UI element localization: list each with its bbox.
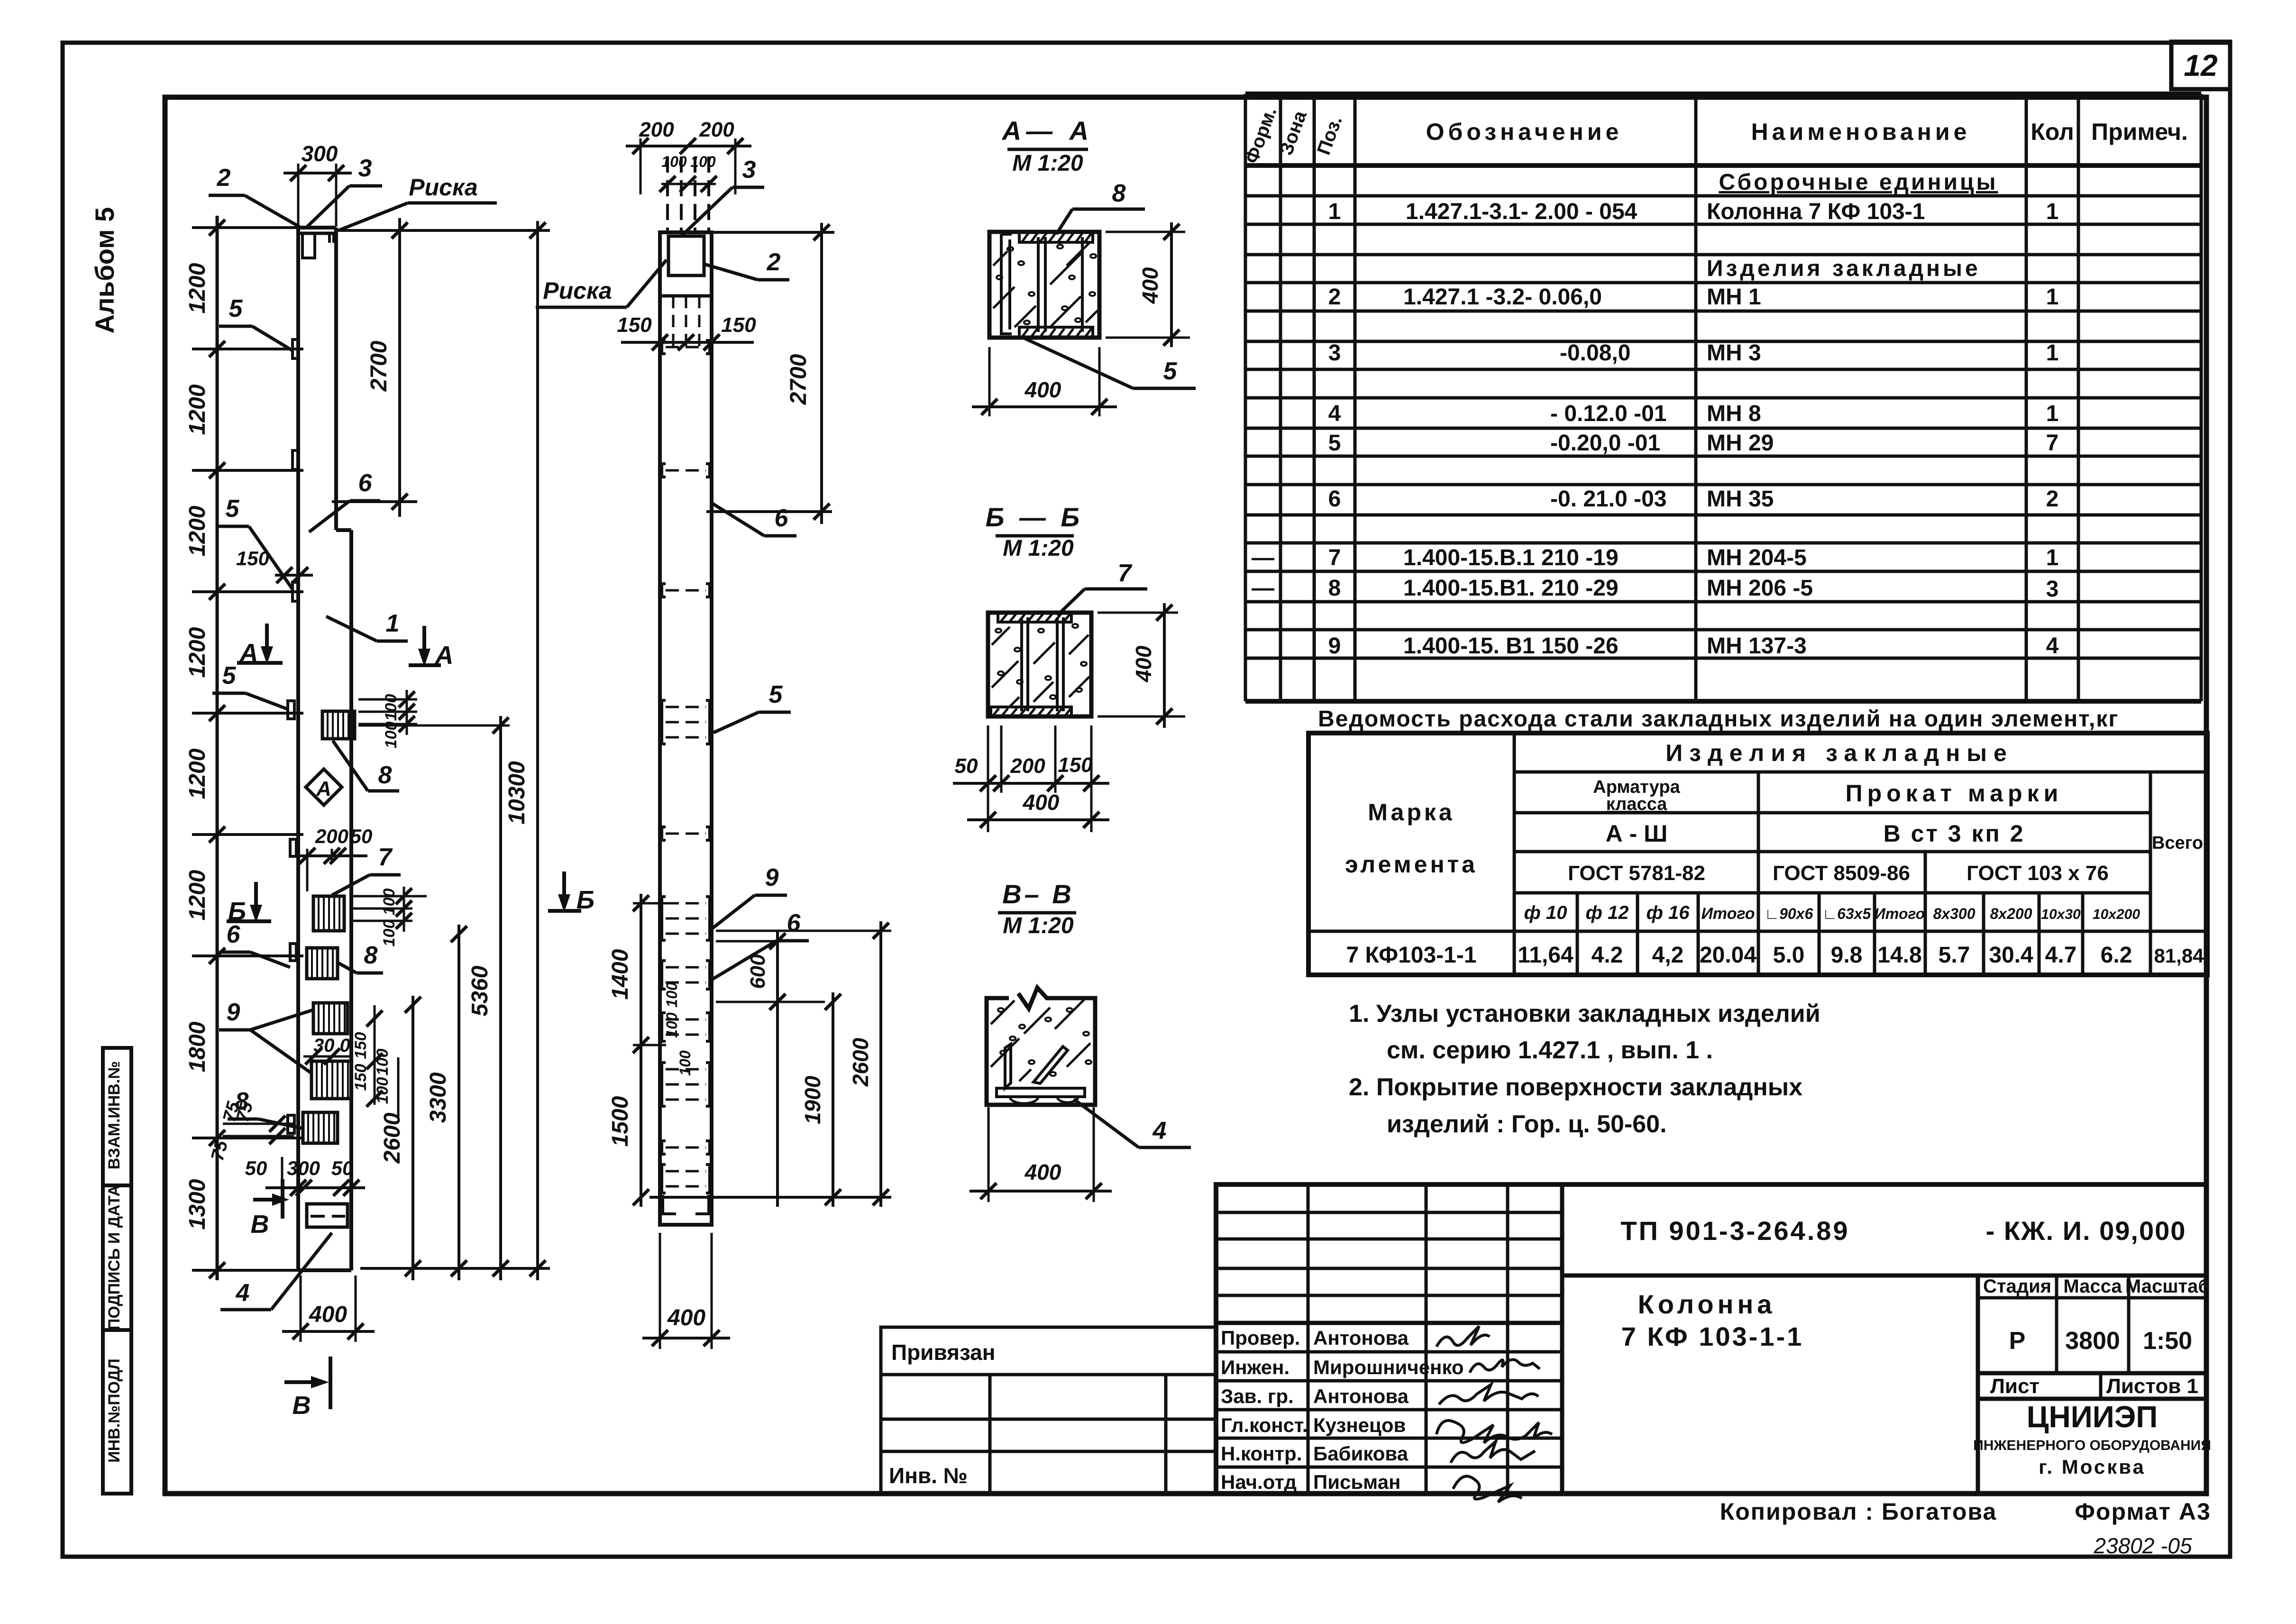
- steel table sub headers: [1524, 902, 2140, 923]
- svg-text:М 1:20: М 1:20: [1003, 536, 1074, 561]
- top plate 8 strip: [993, 232, 1098, 338]
- svg-text:50: 50: [245, 1157, 267, 1179]
- leader 6 to step: [309, 501, 350, 532]
- leader 7: [332, 875, 370, 895]
- svg-text:400: 400: [1025, 1160, 1061, 1184]
- svg-text:4: 4: [236, 1279, 250, 1307]
- svg-text:6: 6: [787, 909, 801, 937]
- svg-text:Примеч.: Примеч.: [2091, 119, 2188, 145]
- svg-text:200: 200: [1010, 754, 1045, 778]
- left channel (plate 5): [1001, 234, 1012, 334]
- leader 8b: [338, 963, 357, 973]
- svg-text:Листов 1: Листов 1: [2106, 1375, 2198, 1398]
- svg-text:8: 8: [1112, 180, 1126, 207]
- svg-text:100: 100: [374, 1049, 392, 1076]
- svg-text:ф 16: ф 16: [1647, 902, 1690, 923]
- leader 8 first: [333, 741, 368, 791]
- svg-text:9: 9: [227, 999, 240, 1026]
- svg-text:400: 400: [667, 1305, 705, 1330]
- svg-text:1.400-15. В1 150 -26: 1.400-15. В1 150 -26: [1403, 633, 1619, 659]
- svg-text:100: 100: [380, 889, 398, 916]
- dim 300 above cap: [297, 164, 300, 227]
- svg-text:1200: 1200: [185, 263, 210, 313]
- svg-text:А: А: [316, 777, 331, 800]
- svg-text:7: 7: [1328, 545, 1341, 570]
- handwritten signatures: [1436, 1326, 1552, 1502]
- svg-text:23802 -05: 23802 -05: [2093, 1533, 2192, 1558]
- svg-text:400: 400: [1023, 790, 1060, 815]
- svg-text:2: 2: [1328, 284, 1341, 310]
- svg-text:100: 100: [382, 694, 400, 721]
- top plate 7 strip: [998, 613, 1071, 622]
- svg-text:7 КФ103-1-1: 7 КФ103-1-1: [1346, 943, 1476, 968]
- svg-text:3800: 3800: [2065, 1327, 2120, 1355]
- svg-text:5: 5: [769, 681, 783, 708]
- svg-text:М 1:20: М 1:20: [1003, 913, 1074, 938]
- concrete hatch: [992, 627, 1010, 645]
- leader 7: [1057, 589, 1085, 615]
- svg-text:МН 3: МН 3: [1707, 340, 1761, 366]
- svg-text:Привязан: Привязан: [891, 1340, 996, 1365]
- section V mark left: [253, 1198, 278, 1202]
- svg-text:Н.контр.: Н.контр.: [1221, 1442, 1302, 1465]
- svg-text:1: 1: [1328, 199, 1341, 224]
- svg-text:Формат А3: Формат А3: [2075, 1498, 2211, 1525]
- svg-text:МН 29: МН 29: [1707, 431, 1774, 456]
- svg-text:14.8: 14.8: [1877, 943, 1921, 968]
- svg-text:30.4: 30.4: [1989, 943, 2033, 968]
- diamond mark A: [306, 769, 342, 805]
- svg-text:10х30: 10х30: [2041, 907, 2081, 922]
- right 400 dim: [1098, 612, 1178, 614]
- svg-text:-0.20,0 -01: -0.20,0 -01: [1550, 431, 1660, 456]
- svg-text:В ст 3 кп 2: В ст 3 кп 2: [1884, 820, 2025, 847]
- svg-text:1: 1: [2046, 340, 2059, 366]
- svg-text:см. серию 1.427.1 , вып. 1 .: см. серию 1.427.1 , вып. 1 .: [1387, 1037, 1713, 1064]
- svg-text:Колонна: Колонна: [1638, 1289, 1776, 1319]
- svg-text:М 1:20: М 1:20: [1012, 151, 1083, 176]
- leader 8c: [258, 1119, 303, 1129]
- svg-text:7: 7: [378, 844, 393, 871]
- svg-text:8х200: 8х200: [1990, 905, 2032, 922]
- svg-text:ПОДПИСЬ И ДАТА: ПОДПИСЬ И ДАТА: [105, 1185, 123, 1330]
- svg-text:Риска: Риска: [409, 174, 477, 201]
- svg-text:Лист: Лист: [1990, 1375, 2040, 1398]
- svg-text:Б — Б: Б — Б: [986, 502, 1083, 532]
- svg-text:Изделия закладные: Изделия закладные: [1707, 256, 1981, 281]
- steel consumption table grid: [1308, 733, 2207, 975]
- svg-text:Всего: Всего: [2152, 833, 2203, 853]
- svg-text:Антонова: Антонова: [1313, 1327, 1409, 1349]
- svg-text:- КЖ. И. 09,000: - КЖ. И. 09,000: [1986, 1216, 2186, 1246]
- steel table data row: [1346, 943, 2204, 968]
- svg-text:400: 400: [309, 1302, 347, 1327]
- stage mass scale fields: [1983, 1276, 2210, 1398]
- svg-text:2. Покрытие поверхности закл: 2. Покрытие поверхности закладных: [1349, 1073, 1802, 1101]
- plate 8b hatched: [290, 944, 296, 961]
- leader 6 lower: [710, 941, 777, 981]
- svg-text:Альбом 5: Альбом 5: [90, 207, 119, 334]
- svg-text:400: 400: [1025, 377, 1061, 402]
- bottom strip: [991, 707, 1071, 716]
- svg-text:5360: 5360: [467, 965, 493, 1016]
- bottom 400 dim: [300, 1275, 302, 1342]
- svg-text:5.7: 5.7: [1939, 943, 1970, 968]
- svg-text:Инв. №: Инв. №: [889, 1463, 968, 1488]
- svg-text:150: 150: [617, 313, 652, 337]
- svg-text:2: 2: [217, 164, 231, 192]
- leader 9: [711, 895, 755, 929]
- svg-text:4.2: 4.2: [1592, 943, 1623, 968]
- svg-text:3: 3: [742, 156, 756, 184]
- svg-text:50: 50: [331, 1157, 354, 1179]
- svg-text:100: 100: [661, 153, 687, 170]
- right-side long dims of column 1: [360, 1267, 550, 1270]
- svg-text:Антонова: Антонова: [1313, 1385, 1409, 1407]
- svg-text:ТП 901-3-264.89: ТП 901-3-264.89: [1620, 1216, 1849, 1246]
- leader 6 right: [713, 504, 764, 536]
- bottom plate strip: [997, 1088, 1085, 1097]
- svg-text:3: 3: [1328, 340, 1341, 366]
- svg-text:300: 300: [302, 141, 338, 166]
- svg-text:50: 50: [350, 825, 373, 847]
- svg-text:2: 2: [767, 248, 781, 276]
- svg-text:∟63х5: ∟63х5: [1822, 905, 1872, 922]
- bottom 400 dim: [988, 1107, 990, 1202]
- svg-text:1200: 1200: [185, 748, 210, 799]
- svg-text:Итого: Итого: [1701, 905, 1755, 923]
- svg-text:6: 6: [775, 505, 789, 532]
- svg-text:ф 12: ф 12: [1586, 902, 1629, 923]
- inner verticals: [1037, 237, 1040, 332]
- svg-text:100: 100: [690, 153, 716, 170]
- svg-text:8: 8: [364, 942, 378, 969]
- V channel plates: [1005, 1044, 1011, 1088]
- svg-text:1: 1: [2046, 284, 2059, 310]
- svg-text:МН 206 -5: МН 206 -5: [1707, 576, 1813, 601]
- svg-text:300: 300: [287, 1157, 320, 1179]
- plate 8c: [288, 1115, 294, 1133]
- notes: [1349, 1000, 1820, 1138]
- svg-text:Письман: Письман: [1313, 1471, 1400, 1493]
- svg-text:элемента: элемента: [1345, 851, 1478, 878]
- 2700 dim (first segment): [398, 218, 401, 517]
- svg-text:3300: 3300: [426, 1072, 451, 1123]
- svg-text:ГОСТ 103 х 76: ГОСТ 103 х 76: [1967, 862, 2109, 885]
- svg-text:А— А: А— А: [1001, 116, 1093, 146]
- svg-text:1200: 1200: [185, 870, 210, 920]
- leader 4: [271, 1233, 332, 1310]
- svg-text:200: 200: [639, 118, 674, 141]
- svg-text:4,2: 4,2: [1652, 943, 1684, 968]
- bottom plate 4: [307, 1204, 348, 1227]
- svg-text:Итого: Итого: [1875, 905, 1925, 922]
- svg-text:5: 5: [1163, 358, 1178, 385]
- svg-text:12: 12: [2184, 48, 2217, 83]
- svg-text:1800: 1800: [185, 1021, 210, 1072]
- svg-text:1500: 1500: [608, 1096, 633, 1147]
- section B mark right: [562, 872, 566, 905]
- svg-text:100: 100: [374, 1077, 392, 1104]
- svg-text:150: 150: [1058, 753, 1093, 777]
- leader 9 double: [219, 1028, 250, 1032]
- svg-text:4: 4: [1153, 1117, 1167, 1145]
- svg-text:1400: 1400: [608, 949, 633, 1000]
- svg-text:4.7: 4.7: [2045, 943, 2077, 968]
- binding block (Privyazan): [881, 1327, 1216, 1494]
- svg-text:3: 3: [2046, 577, 2059, 602]
- svg-text:2: 2: [2046, 486, 2059, 512]
- svg-text:Колонна 7 КФ 103-1: Колонна 7 КФ 103-1: [1707, 199, 1925, 224]
- specification table grid: [1245, 94, 2201, 701]
- svg-text:6: 6: [358, 469, 373, 497]
- svg-text:1: 1: [386, 610, 400, 637]
- bottom dims 50 200 150 and 400: [987, 725, 989, 832]
- svg-text:-0. 21.0 -03: -0. 21.0 -03: [1550, 486, 1666, 512]
- svg-text:Прокат марки: Прокат марки: [1846, 780, 2063, 807]
- svg-text:ИНВ.№ПОДЛ: ИНВ.№ПОДЛ: [105, 1358, 123, 1462]
- svg-text:Марка: Марка: [1368, 799, 1454, 826]
- bottom section V mark: [284, 1380, 317, 1384]
- svg-text:Ведомость расхода стали заклад: Ведомость расхода стали закладных издели…: [1318, 706, 2119, 732]
- svg-text:6: 6: [1328, 486, 1341, 512]
- left dims 1400 1500: [640, 894, 642, 1207]
- leader 1: [326, 616, 377, 641]
- column 1 body: [296, 228, 300, 1270]
- svg-text:50: 50: [955, 754, 978, 778]
- svg-text:7: 7: [2046, 431, 2059, 456]
- svg-text:20.04: 20.04: [1700, 943, 1756, 968]
- svg-text:400: 400: [1131, 645, 1156, 682]
- small plate above plate7: [290, 839, 296, 856]
- mini dims 100/100 right of plate8: [358, 698, 417, 701]
- concrete dots: [997, 245, 1096, 324]
- plate 7 hatched: [313, 896, 344, 931]
- svg-text:150: 150: [721, 313, 756, 337]
- svg-text:МН 35: МН 35: [1707, 486, 1774, 512]
- svg-text:150: 150: [352, 1032, 370, 1059]
- svg-text:1.400-15.В.1 210 -19: 1.400-15.В.1 210 -19: [1403, 545, 1619, 570]
- channel legs vertical: [1020, 617, 1023, 711]
- embedded plates on left face of column 1: [293, 339, 299, 358]
- bottom corner angles: [663, 1195, 676, 1214]
- svg-text:В: В: [251, 1210, 269, 1239]
- leader 2 top: [209, 194, 245, 197]
- top dims 200 200: [626, 145, 751, 147]
- svg-text:7: 7: [1118, 560, 1133, 587]
- svg-text:2700: 2700: [786, 354, 811, 405]
- svg-text:ЦНИИЭП: ЦНИИЭП: [2027, 1400, 2158, 1434]
- svg-text:100: 100: [380, 920, 398, 947]
- svg-text:100: 100: [663, 982, 680, 1008]
- svg-text:1:50: 1:50: [2143, 1327, 2192, 1355]
- svg-text:10х200: 10х200: [2093, 907, 2140, 922]
- svg-text:7 КФ 103-1-1: 7 КФ 103-1-1: [1621, 1321, 1804, 1351]
- svg-text:1: 1: [2046, 401, 2059, 426]
- svg-text:3: 3: [358, 155, 372, 182]
- svg-text:1200: 1200: [185, 384, 210, 435]
- dim chain left of column 1: [216, 216, 219, 1280]
- leader 2: [703, 264, 758, 280]
- svg-text:100: 100: [663, 1012, 680, 1038]
- svg-text:Бабикова: Бабикова: [1313, 1442, 1409, 1465]
- svg-text:Кол: Кол: [2031, 119, 2074, 145]
- leader 3 top: [307, 186, 349, 227]
- inner drawing frame: [165, 97, 2206, 1494]
- right 400 dim: [1106, 231, 1185, 233]
- svg-text:—: —: [1252, 545, 1274, 570]
- leader 5 (top): [219, 325, 252, 328]
- svg-text:В: В: [293, 1391, 311, 1420]
- svg-text:Мирошниченко: Мирошниченко: [1313, 1356, 1464, 1378]
- svg-text:МН 1: МН 1: [1707, 284, 1761, 310]
- svg-text:∟90х6: ∟90х6: [1765, 905, 1813, 922]
- svg-text:ВЗАМ.ИНВ.№: ВЗАМ.ИНВ.№: [105, 1061, 123, 1170]
- svg-text:Кузнецов: Кузнецов: [1313, 1414, 1406, 1436]
- left stamp strip: [103, 1048, 131, 1494]
- svg-text:Обозначение: Обозначение: [1426, 119, 1623, 145]
- title block grid: [1216, 1184, 2206, 1494]
- svg-text:400: 400: [1138, 267, 1162, 304]
- svg-text:ИНЖЕНЕРНОГО ОБОРУДОВАНИЯ: ИНЖЕНЕРНОГО ОБОРУДОВАНИЯ: [1973, 1438, 2211, 1453]
- top extension line to 10300 dim: [336, 229, 550, 232]
- svg-text:Изделия закладные: Изделия закладные: [1665, 740, 2013, 766]
- svg-text:4: 4: [1328, 401, 1341, 426]
- svg-text:600: 600: [746, 954, 769, 989]
- svg-text:5: 5: [1328, 431, 1341, 456]
- svg-text:1.427.1 -3.2- 0.06,0: 1.427.1 -3.2- 0.06,0: [1403, 284, 1602, 310]
- svg-text:1: 1: [2046, 199, 2059, 224]
- cap rebar dashed inside: [672, 296, 675, 349]
- column 2 body: [660, 232, 712, 1225]
- svg-text:2600: 2600: [380, 1112, 405, 1164]
- specification table rows: [1252, 170, 2059, 659]
- svg-text:1: 1: [2046, 545, 2059, 570]
- svg-text:1200: 1200: [185, 627, 210, 678]
- svg-text:Наименование: Наименование: [1751, 119, 1971, 145]
- concrete hatch: [993, 251, 1007, 266]
- svg-text:2600: 2600: [848, 1037, 873, 1087]
- svg-text:Сборочные единицы: Сборочные единицы: [1719, 170, 1998, 195]
- mini dim 100 100 right of plate 7: [351, 895, 427, 898]
- rebar outlets on top: [666, 156, 669, 231]
- svg-text:Стадия: Стадия: [1983, 1276, 2051, 1297]
- leader 3: [682, 187, 732, 236]
- svg-text:Гл.конст.: Гл.конст.: [1221, 1414, 1308, 1436]
- leader 5 third: [212, 692, 246, 695]
- svg-text:4: 4: [2046, 633, 2059, 659]
- svg-text:класса: класса: [1606, 794, 1667, 814]
- svg-text:Зав. гр.: Зав. гр.: [1221, 1385, 1294, 1407]
- plate 5 + hatched plate 8 at 1500: [288, 701, 294, 719]
- bottom 400 dim col2: [659, 1233, 661, 1349]
- svg-text:100: 100: [677, 1050, 694, 1076]
- right dims 600 1900 2600: [649, 1196, 891, 1199]
- svg-text:А - Ш: А - Ш: [1606, 820, 1668, 847]
- svg-text:1.427.1-3.1- 2.00 - 054: 1.427.1-3.1- 2.00 - 054: [1406, 199, 1637, 224]
- svg-text:200: 200: [699, 118, 734, 141]
- svg-text:6: 6: [227, 921, 241, 948]
- svg-text:5: 5: [229, 295, 243, 322]
- svg-text:Масса: Масса: [2063, 1276, 2122, 1297]
- svg-text:Копировал : Богатова: Копировал : Богатова: [1720, 1498, 1997, 1525]
- svg-text:1.400-15.В1. 210 -29: 1.400-15.В1. 210 -29: [1403, 576, 1619, 601]
- leader 5: [1025, 339, 1133, 388]
- svg-text:9.8: 9.8: [1831, 943, 1863, 968]
- leader 5 (second): [216, 525, 249, 528]
- leader 4: [1074, 1099, 1139, 1147]
- specification table headers: [1241, 104, 2188, 166]
- svg-text:1. Узлы установки закладных: 1. Узлы установки закладных изделий: [1349, 1000, 1820, 1028]
- svg-text:г. Москва: г. Москва: [2039, 1456, 2146, 1478]
- svg-text:81,84: 81,84: [2154, 945, 2204, 967]
- svg-text:11,64: 11,64: [1518, 943, 1573, 968]
- svg-text:Риска: Риска: [543, 277, 612, 304]
- svg-text:ГОСТ 8509-86: ГОСТ 8509-86: [1773, 862, 1910, 885]
- bottom plate strip: [1019, 327, 1093, 338]
- leader 6b: [250, 952, 290, 967]
- svg-text:5: 5: [222, 662, 237, 689]
- concrete hatch: [991, 1000, 1015, 1024]
- leader 8: [1056, 209, 1072, 234]
- svg-text:- 0.12.0 -01: - 0.12.0 -01: [1550, 401, 1666, 426]
- svg-text:6.2: 6.2: [2101, 943, 2132, 968]
- square with break mark on top: [987, 988, 1095, 1105]
- document number and name: [1620, 1216, 2186, 1351]
- svg-text:5: 5: [226, 495, 240, 523]
- top cap plate MH1: [298, 232, 336, 235]
- svg-text:8х300: 8х300: [1933, 905, 1976, 922]
- svg-text:Провер.: Провер.: [1221, 1327, 1300, 1349]
- 2700 dim right: [712, 231, 834, 234]
- steel table headers: [1345, 740, 2203, 885]
- section A-A marks: [265, 624, 269, 657]
- svg-text:МН 204-5: МН 204-5: [1707, 545, 1807, 570]
- svg-text:200: 200: [315, 825, 348, 847]
- svg-text:8: 8: [378, 762, 392, 789]
- leader 5 mid: [713, 712, 759, 733]
- svg-text:9: 9: [765, 864, 779, 891]
- svg-text:МН 137-3: МН 137-3: [1707, 633, 1807, 659]
- svg-text:1900: 1900: [800, 1075, 825, 1124]
- svg-text:Масштаб: Масштаб: [2125, 1276, 2210, 1297]
- svg-text:2700: 2700: [366, 340, 392, 392]
- svg-text:МН 8: МН 8: [1707, 401, 1761, 426]
- bottom 400 dim: [988, 347, 991, 416]
- svg-text:1200: 1200: [185, 505, 210, 556]
- svg-text:изделий : Гор. ц. 50-60.: изделий : Гор. ц. 50-60.: [1387, 1110, 1667, 1138]
- svg-text:8: 8: [1328, 576, 1341, 601]
- svg-text:9: 9: [1328, 633, 1341, 659]
- svg-text:Нач.отд: Нач.отд: [1221, 1471, 1297, 1493]
- svg-text:10300: 10300: [504, 761, 530, 825]
- signature rows: [1221, 1327, 1464, 1493]
- svg-text:5.0: 5.0: [1773, 943, 1805, 968]
- svg-text:В– В: В– В: [1002, 879, 1074, 909]
- sheet number box 12: [2171, 42, 2230, 89]
- cap box: [660, 294, 712, 298]
- svg-text:1300: 1300: [185, 1179, 210, 1229]
- svg-text:ф 10: ф 10: [1524, 902, 1567, 923]
- section B marks left: [254, 882, 258, 915]
- svg-text:-0.08,0: -0.08,0: [1560, 340, 1630, 366]
- svg-text:Инжен.: Инжен.: [1221, 1356, 1290, 1378]
- plates 9: [313, 1003, 348, 1034]
- svg-text:—: —: [1252, 576, 1274, 601]
- svg-text:Р: Р: [2009, 1327, 2026, 1355]
- cross ties with end brackets, column 2: [666, 346, 706, 349]
- svg-text:ГОСТ 5781-82: ГОСТ 5781-82: [1568, 862, 1705, 885]
